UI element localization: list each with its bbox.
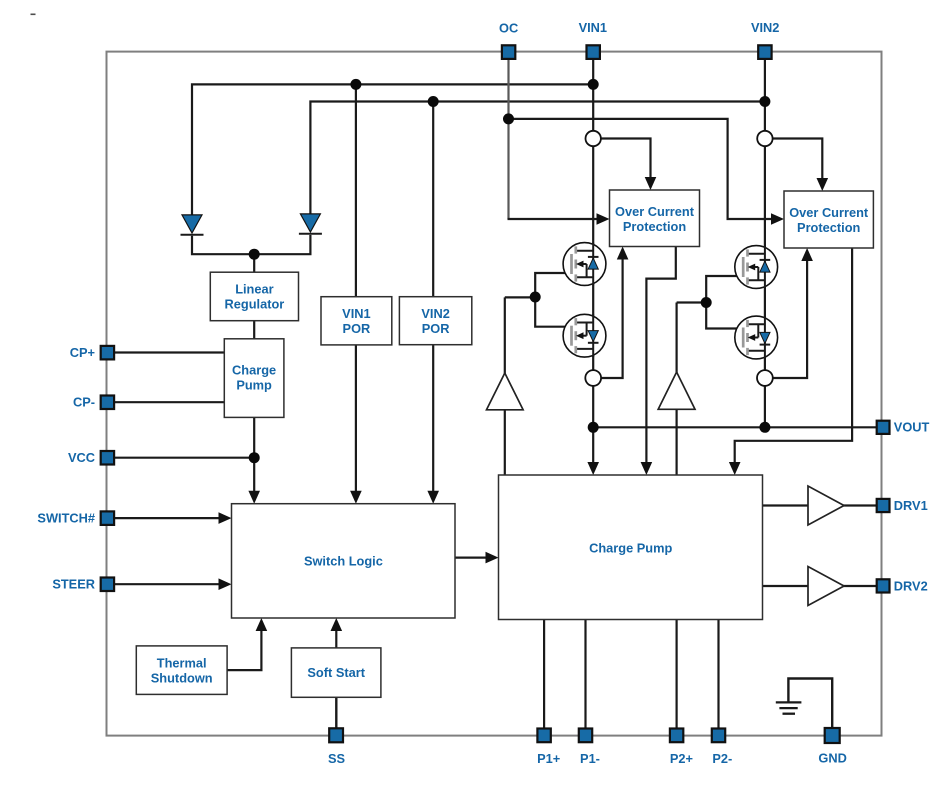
wire VIN1 POR feed <box>355 84 357 494</box>
sense circle ch1 bottom <box>585 370 601 386</box>
IC boundary box <box>107 52 882 736</box>
node VIN2-POR tap <box>428 96 439 107</box>
sense circle ch2 top <box>757 131 772 146</box>
wire VIN2 to diode D2 horizontal <box>310 102 765 215</box>
wire STEER <box>114 583 222 585</box>
svg-text:Charge: Charge <box>232 363 276 378</box>
transistor Q1 (VIN1 high-side MOSFET) <box>563 243 606 286</box>
block VIN2 POR <box>399 297 471 345</box>
wire VIN2 POR feed <box>432 102 434 495</box>
arrowhead OCP1 into Charge Pump top <box>641 462 653 475</box>
ground symbol <box>776 702 802 713</box>
wire GND net <box>788 679 832 729</box>
pin P2- <box>712 729 725 743</box>
pin CP+ <box>101 346 114 360</box>
pin P1- <box>579 729 592 743</box>
svg-text:DRV2: DRV2 <box>894 578 928 593</box>
transistor Q3 (VIN2 high-side MOSFET) <box>735 246 778 289</box>
wire gate stub channel 1 <box>505 296 535 298</box>
wire sense1 bottom to OCP1 <box>601 258 623 378</box>
svg-text:VIN2: VIN2 <box>421 306 449 321</box>
svg-text:Regulator: Regulator <box>225 297 285 312</box>
wire driver T2 column <box>675 303 677 476</box>
block Over Current Protection 2 <box>784 191 873 248</box>
wire sense1 top to OCP1 <box>601 139 651 181</box>
svg-text:P2-: P2- <box>712 751 732 766</box>
pin GND <box>825 728 840 743</box>
node VIN1 rail junction <box>588 79 599 90</box>
wire sense2 bottom to OCP2 <box>773 259 808 378</box>
wire VOUT <box>593 426 877 428</box>
pin SS <box>329 728 343 742</box>
wire OC vertical <box>507 60 509 219</box>
svg-text:Thermal: Thermal <box>157 655 207 670</box>
svg-text:VIN2: VIN2 <box>751 20 779 35</box>
svg-text:Switch Logic: Switch Logic <box>304 554 383 569</box>
pin VIN2 <box>758 45 771 59</box>
wire DRV2 <box>763 585 878 587</box>
wire SWITCH# <box>114 517 222 519</box>
wire CP+ <box>114 351 224 353</box>
node VIN2 rail junction <box>759 96 770 107</box>
block Linear Regulator <box>210 272 298 321</box>
diode D1 (VIN1 OR-ing) <box>181 215 204 235</box>
pin P1+ <box>537 729 550 743</box>
svg-text:Protection: Protection <box>797 220 860 235</box>
svg-text:Charge Pump: Charge Pump <box>589 540 672 555</box>
svg-text:Protection: Protection <box>623 219 686 234</box>
wire VCC <box>114 457 254 459</box>
node VIN1-POR tap <box>350 79 361 90</box>
wire node to Linear Regulator <box>253 254 255 272</box>
svg-text:VIN1: VIN1 <box>342 306 370 321</box>
node OC branch junction <box>503 113 514 124</box>
wire VIN1 to diode D1 horizontal <box>192 84 593 215</box>
svg-text:P1-: P1- <box>580 751 600 766</box>
wire gate net channel 1 <box>535 273 571 327</box>
wire diode cathode join to Linear Regulator <box>192 235 310 254</box>
svg-text:POR: POR <box>422 321 450 336</box>
arrowhead OCP2 into Charge Pump top <box>729 462 741 475</box>
arrowhead STEER into Switch Logic <box>219 578 232 590</box>
sense circle ch2 bottom <box>757 370 773 386</box>
wire Soft Start to SS pin <box>335 697 337 728</box>
wire P2- <box>717 620 719 729</box>
svg-text:VCC: VCC <box>68 450 95 465</box>
svg-text:Over Current: Over Current <box>615 204 695 219</box>
arrowhead VIN2 POR into Switch Logic top <box>427 491 439 504</box>
wire OC branch to OCP2 <box>509 119 775 219</box>
buffer B2 (DRV2) <box>808 567 844 606</box>
arrowhead sense into OCP2 top <box>817 178 829 191</box>
wire VIN2 vertical net <box>764 60 766 428</box>
pin OC <box>502 45 515 59</box>
wire P1- <box>584 620 586 729</box>
driver triangle T2 (gate driver ch2) <box>658 372 695 409</box>
pin VIN1 <box>587 45 600 59</box>
svg-text:VOUT: VOUT <box>894 420 930 435</box>
arrowhead sense into OCP1 bottom <box>617 247 629 260</box>
svg-text:POR: POR <box>343 321 371 336</box>
arrowhead VCC net into Switch Logic top <box>248 491 260 504</box>
wire Linear Regulator to Charge Pump <box>253 321 255 339</box>
block Charge Pump (main) <box>499 475 763 620</box>
wire P2+ <box>675 620 677 729</box>
wire gate stub channel 2 <box>677 301 707 303</box>
arrowhead VIN1 rail into Charge Pump top <box>587 462 599 475</box>
arrowhead OC into OCP1 left <box>597 213 610 225</box>
wire VIN1 vertical net <box>592 60 594 465</box>
svg-text:P1+: P1+ <box>537 751 560 766</box>
wire Soft Start to Switch Logic <box>335 628 337 648</box>
arrowhead VIN1 POR into Switch Logic top <box>350 491 362 504</box>
pin VOUT <box>877 421 890 434</box>
wire Switch Logic to Charge Pump <box>455 556 489 558</box>
node VOUT junction ch2 <box>759 422 770 433</box>
wire DRV1 <box>763 504 878 506</box>
wire driver T1 column <box>504 297 506 475</box>
wire P1+ <box>543 620 545 729</box>
svg-text:VIN1: VIN1 <box>579 20 607 35</box>
driver triangle T1 (gate driver ch1) <box>487 373 524 410</box>
svg-text:SWITCH#: SWITCH# <box>37 511 95 526</box>
svg-text:CP-: CP- <box>73 395 95 410</box>
wire CP- <box>114 401 224 403</box>
transistor Q2 (VIN1 low-side MOSFET) <box>563 314 606 357</box>
svg-text:OC: OC <box>499 21 518 36</box>
svg-text:Linear: Linear <box>235 282 273 297</box>
wire gate net channel 2 <box>706 276 743 329</box>
arrowhead SWITCH# into Switch Logic <box>219 512 232 524</box>
arrowhead Thermal Shutdown into Switch Logic <box>256 618 268 631</box>
svg-text:Shutdown: Shutdown <box>151 670 213 685</box>
wire sense2 top to OCP2 <box>772 139 822 182</box>
sense circle ch1 top <box>586 131 601 146</box>
stray dash mark top-left <box>31 13 36 15</box>
block VIN1 POR <box>321 297 392 345</box>
pin CP- <box>101 396 114 410</box>
buffer B1 (DRV1) <box>808 486 844 525</box>
pin VCC <box>101 451 114 465</box>
pin DRV1 <box>877 499 890 512</box>
block Over Current Protection 1 <box>610 190 700 247</box>
pin SWITCH# <box>101 511 114 525</box>
node diode cathode junction <box>249 249 260 260</box>
wire OCP2 output <box>735 248 852 465</box>
node gate net ch2 junction <box>701 297 712 308</box>
diode D2 (VIN2 OR-ing) <box>299 214 322 234</box>
node VCC junction <box>249 452 260 463</box>
node gate net ch1 junction <box>530 292 541 303</box>
wire Charge Pump to Switch Logic <box>253 417 255 494</box>
block Charge Pump (small) <box>224 339 284 418</box>
svg-text:SS: SS <box>328 751 346 766</box>
wire OCP1 output <box>646 247 675 466</box>
arrowhead Switch Logic into Charge Pump <box>486 552 499 564</box>
svg-text:Over Current: Over Current <box>789 205 869 220</box>
svg-text:GND: GND <box>818 751 846 766</box>
arrowhead Soft Start into Switch Logic <box>331 618 343 631</box>
block Switch Logic <box>232 504 456 618</box>
pin STEER <box>101 578 114 592</box>
wire Thermal Shutdown to Switch Logic <box>227 628 261 670</box>
svg-text:Pump: Pump <box>236 378 272 393</box>
pin P2+ <box>670 729 683 743</box>
block Thermal Shutdown <box>136 646 227 695</box>
arrowhead OC into OCP2 left <box>771 213 784 225</box>
svg-text:P2+: P2+ <box>670 751 693 766</box>
block Soft Start <box>291 648 381 697</box>
svg-text:CP+: CP+ <box>70 345 95 360</box>
transistor Q4 (VIN2 low-side MOSFET) <box>735 316 778 359</box>
svg-text:STEER: STEER <box>52 577 95 592</box>
arrowhead sense into OCP1 top <box>645 177 657 190</box>
arrowhead sense into OCP2 bottom <box>801 248 813 261</box>
svg-text:DRV1: DRV1 <box>894 498 928 513</box>
pin DRV2 <box>877 579 890 592</box>
node VOUT junction ch1 <box>588 422 599 433</box>
svg-text:Soft Start: Soft Start <box>307 665 365 680</box>
